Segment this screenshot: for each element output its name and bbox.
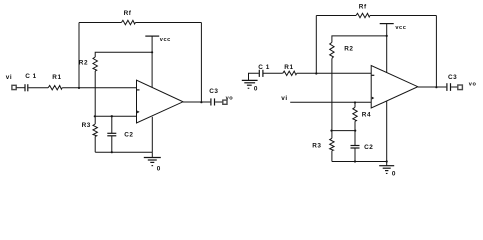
- op-amp U1: [137, 80, 184, 123]
- wire R4 top stub: [354, 102, 356, 107]
- wire R1 to inverting input (node C): [297, 72, 372, 74]
- wire Rf right drop to output (right): [435, 16, 437, 88]
- wire bottom rail to ground (right): [332, 161, 387, 163]
- svg-text:Rf: Rf: [359, 4, 367, 11]
- junction output node (right): [435, 86, 437, 88]
- wire vi to plus input: [290, 101, 371, 103]
- wire Rf top right: [135, 22, 201, 24]
- wire R1 to inverting input (node A): [62, 87, 136, 89]
- resistor R3: [93, 124, 97, 136]
- svg-text:C 1: C 1: [258, 64, 270, 71]
- vcc bar (right): [380, 23, 394, 25]
- svg-text:R3: R3: [82, 122, 91, 129]
- resistor R1: [48, 86, 62, 90]
- resistor R4: [353, 107, 357, 121]
- resistor R2: [93, 57, 97, 71]
- resistor Rf: [121, 20, 135, 24]
- junction node A: [78, 87, 80, 89]
- resistor R1 (right): [283, 71, 297, 75]
- ground G1: [144, 152, 161, 166]
- svg-text:Rf: Rf: [124, 10, 132, 17]
- svg-text:C2: C2: [124, 132, 133, 139]
- op-amp U2: [371, 66, 418, 109]
- wire C1 to R1: [28, 87, 48, 89]
- svg-text:C2: C2: [364, 144, 373, 151]
- wire vi to C1: [16, 87, 24, 89]
- wire R3 bottom stub (right): [331, 151, 333, 162]
- junction R2 top at vcc stem: [151, 51, 153, 53]
- resistor Rf (right): [356, 13, 370, 17]
- wire R2 top corner to vcc stem (right): [332, 36, 387, 43]
- wire node D horizontal: [332, 130, 355, 132]
- junction ground stem (right): [386, 160, 388, 162]
- wire node B horizontal to plus input: [95, 115, 136, 117]
- wire R3 top stub: [94, 116, 96, 124]
- svg-text:0: 0: [254, 86, 258, 93]
- wire vcc stem to op-amp V+ pin (right): [386, 24, 388, 73]
- svg-text:0: 0: [392, 171, 396, 178]
- svg-text:vo: vo: [226, 96, 234, 102]
- port vi: [12, 85, 16, 89]
- junction node C: [315, 72, 317, 74]
- wire R3 bottom stub: [94, 136, 96, 152]
- junction node B at C2: [111, 115, 113, 117]
- capacitor C2: [107, 133, 116, 136]
- junction R2 top at vcc stem (right): [386, 35, 388, 37]
- wire output to C3: [183, 101, 210, 103]
- wire R2 bottom through node A wire to node B: [94, 71, 96, 116]
- wire Rf top left: [79, 22, 121, 24]
- capacitor C2 (right): [351, 146, 360, 149]
- op-amp U1 minus mark: [137, 89, 140, 90]
- svg-text:0: 0: [157, 166, 161, 173]
- wire C2 top stub (right): [354, 131, 356, 146]
- wire C2 bottom stub: [111, 136, 113, 152]
- svg-text:vo: vo: [469, 82, 477, 88]
- junction C2 bottom (right): [354, 160, 356, 162]
- capacitor C3: [211, 98, 215, 105]
- svg-text:R1: R1: [52, 74, 61, 81]
- wire op-amp ground pin: [151, 117, 153, 152]
- capacitor C1 (right): [259, 70, 263, 77]
- wire R4 bottom stub to node D: [354, 121, 356, 130]
- wire Rf top left (right): [316, 15, 356, 17]
- wire C3 to port vo (right): [451, 86, 458, 88]
- svg-text:vi: vi: [281, 95, 287, 102]
- op-amp U2 plus mark: [372, 97, 375, 100]
- junction node D right: [354, 130, 356, 132]
- junction node D left: [330, 130, 332, 132]
- wire output to C3 (right): [418, 86, 447, 88]
- svg-text:R4: R4: [362, 112, 371, 119]
- capacitor C1: [25, 84, 28, 91]
- wire C1 to R1 (right): [264, 72, 283, 74]
- wire C2 bottom stub (right): [354, 148, 356, 161]
- junction output node: [200, 101, 202, 103]
- junction C2 bottom: [111, 151, 113, 153]
- resistor R3 (right): [330, 138, 334, 150]
- op-amp U1 plus mark: [137, 111, 140, 114]
- svg-text:vcc: vcc: [395, 25, 406, 31]
- svg-text:R2: R2: [79, 60, 88, 67]
- capacitor C3 (right): [447, 83, 451, 91]
- wire Rf right drop to output: [200, 23, 202, 103]
- wire op-amp ground pin (right): [386, 101, 388, 162]
- svg-text:vcc: vcc: [160, 37, 171, 43]
- svg-text:C3: C3: [448, 74, 457, 81]
- ground G3: [379, 162, 394, 175]
- wire Rf left drop: [78, 23, 80, 88]
- junction node B at R2/R3: [94, 115, 96, 117]
- wire vcc stem to op-amp V+ pin: [151, 36, 153, 88]
- wire Rf top right (right): [370, 15, 436, 17]
- svg-text:R1: R1: [284, 64, 293, 71]
- port vo: [223, 100, 227, 104]
- wire bottom rail to ground: [95, 151, 152, 153]
- svg-text:vi: vi: [6, 74, 12, 81]
- vcc bar: [145, 35, 159, 37]
- svg-text:R2: R2: [344, 45, 353, 52]
- op-amp U2 minus mark: [372, 75, 375, 76]
- resistor R2 (right): [330, 42, 334, 58]
- svg-text:C 1: C 1: [25, 73, 37, 80]
- wire C3 to port vo: [215, 101, 223, 103]
- junction R4 top on vi wire: [354, 101, 356, 103]
- ground G2 (input ground): [242, 73, 259, 88]
- port vo (right): [458, 85, 463, 90]
- svg-text:R3: R3: [312, 143, 321, 150]
- svg-text:C3: C3: [209, 88, 218, 95]
- wire R2 bottom long drop to node D: [331, 58, 333, 138]
- wire C2 top stub: [111, 116, 113, 133]
- wire R2 top corner to vcc stem: [95, 52, 152, 57]
- wire Rf left drop (right): [315, 16, 317, 74]
